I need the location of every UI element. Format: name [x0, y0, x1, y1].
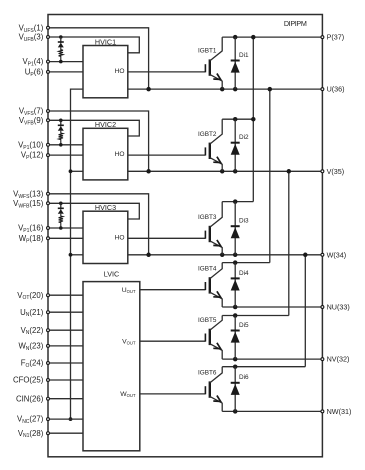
svg-text:HVIC1: HVIC1: [95, 37, 116, 46]
pin NV(32): [321, 355, 349, 364]
svg-text:IGBT2: IGBT2: [198, 131, 217, 138]
svg-text:Di3: Di3: [239, 218, 249, 225]
svg-text:VOT​(20): VOT​(20): [17, 291, 43, 301]
pin VP(12): [21, 151, 50, 161]
junction NV Di5: [233, 357, 238, 362]
svg-text:CIN(26): CIN(26): [16, 394, 44, 403]
junction U VUFS: [146, 87, 151, 92]
transistor IGBT1 emitter: [210, 74, 222, 89]
bootstrap diode BSD3 wire: [60, 203, 62, 209]
junction VNC COM chain: [69, 417, 73, 421]
svg-text:IGBT4: IGBT4: [198, 265, 217, 272]
svg-text:NU(33): NU(33): [327, 303, 350, 312]
transistor IGBT4 collector: [210, 263, 222, 279]
junction Di2 top: [233, 117, 238, 122]
diode Di3 cathode bar: [231, 225, 240, 227]
pin U(36): [321, 85, 345, 94]
pin VP1(4): [22, 57, 49, 67]
wire node W line: [128, 254, 323, 256]
wire WP(18) to HVIC3: [48, 237, 83, 239]
transistor IGBT1 body bar: [209, 59, 211, 75]
transistor IGBT6 emitter: [210, 396, 222, 411]
svg-text:WP​(18): WP​(18): [19, 234, 44, 244]
junction V1FB-bootstrap: [59, 35, 63, 39]
wire HVIC1 COM to VNC chain: [71, 89, 84, 419]
svg-text:LVIC: LVIC: [104, 270, 119, 279]
svg-text:HO: HO: [115, 151, 125, 158]
diode Di2 triangle: [231, 144, 240, 155]
pin UN(21): [20, 308, 49, 318]
wire node U line: [128, 88, 323, 90]
wire VWFS(13) to node W: [48, 194, 149, 255]
diode Di2 wire: [234, 119, 236, 171]
pin P(37): [321, 33, 344, 42]
wire VP(12) to HVIC2: [48, 154, 83, 156]
junction V Di2: [233, 169, 238, 174]
op-amp-driver HVIC3 box: [83, 211, 128, 263]
diode Di3 triangle: [231, 227, 240, 238]
svg-text:P(37): P(37): [327, 33, 345, 42]
transistor IGBT2 gate wire: [128, 154, 206, 156]
diode Di1 triangle: [231, 62, 240, 73]
op-amp-driver HVIC2 box: [83, 128, 128, 180]
wire VVFS(7) to node V: [48, 111, 149, 171]
bootstrap diode BSD3 triangle: [58, 209, 64, 214]
transistor IGBT5 gate wire: [140, 340, 206, 342]
transistor IGBT4 gate bar: [204, 282, 206, 290]
transistor IGBT3 emitter arrow: [213, 240, 220, 246]
svg-text:VOUT: VOUT: [122, 338, 136, 345]
transistor IGBT4 emitter arrow: [213, 291, 220, 297]
junction Di3 top: [233, 199, 238, 204]
wire FO(24) to LVIC: [48, 362, 83, 364]
svg-text:VNC​(27): VNC​(27): [17, 415, 44, 425]
junction V VVFS: [146, 169, 151, 174]
junction W drop: [303, 253, 308, 257]
diode Di2 cathode bar: [231, 142, 240, 144]
bootstrap diode BSD2 wire: [60, 120, 62, 126]
junction Di6 top: [233, 364, 238, 369]
transistor IGBT5 gate bar: [204, 334, 206, 342]
svg-text:IGBT6: IGBT6: [198, 370, 217, 377]
bootstrap diode BSD1 triangle: [58, 43, 64, 48]
wire VP1(16) to HVIC3: [48, 227, 83, 229]
diode Di6 cathode bar: [231, 382, 240, 384]
svg-text:WN​(23): WN​(23): [18, 342, 43, 352]
svg-text:IGBT1: IGBT1: [198, 48, 217, 55]
transistor IGBT6 emitter arrow: [213, 396, 220, 402]
wire node V line: [128, 170, 323, 172]
svg-text:HO: HO: [115, 68, 125, 75]
wire UN(21) to LVIC: [48, 311, 83, 313]
diode Di4 triangle: [231, 280, 240, 291]
wire P bus drop to IGBT2 IGBT3 collectors: [252, 37, 254, 202]
wire IGBT5 collector segment: [222, 315, 289, 317]
pin WP(18): [19, 234, 50, 244]
svg-text:FO​(24): FO​(24): [21, 359, 44, 369]
svg-text:W(34): W(34): [327, 250, 347, 259]
wire IGBT3 collector segment: [222, 201, 253, 203]
junction Di5 top: [233, 313, 238, 318]
pin VP1(16): [18, 224, 49, 234]
bootstrap diode BSD1 wire: [60, 37, 62, 43]
svg-text:HVIC3: HVIC3: [95, 203, 116, 212]
transistor IGBT2 gate bar: [204, 147, 206, 155]
svg-text:NW(31): NW(31): [327, 407, 352, 416]
pin VNC(27): [17, 415, 49, 425]
junction HVIC2 COM: [69, 169, 73, 173]
wire VN1(28) to LVIC: [48, 432, 83, 434]
junction V2FB-bootstrap: [59, 119, 63, 123]
transistor IGBT6 gate wire: [140, 393, 206, 395]
pin VP1(10): [18, 140, 49, 150]
svg-text:VP1​(10): VP1​(10): [18, 140, 44, 150]
diode Di4 cathode bar: [231, 277, 240, 279]
pin NU(33): [321, 303, 350, 312]
svg-text:Di5: Di5: [239, 322, 249, 329]
transistor IGBT1 emitter arrow: [213, 74, 220, 80]
transistor IGBT6 collector: [210, 367, 222, 383]
transistor IGBT5 emitter arrow: [213, 343, 220, 349]
pin WN(23): [18, 342, 49, 352]
transistor IGBT1 collector: [210, 37, 222, 61]
svg-text:WOUT: WOUT: [120, 391, 136, 398]
svg-text:Di6: Di6: [239, 374, 249, 381]
package outline DIPIPM module: [48, 15, 322, 457]
junction W VWFS: [146, 253, 151, 257]
svg-text:HO: HO: [115, 234, 125, 241]
junction V3FB-bootstrap: [59, 202, 63, 206]
junction W IGBT3 emitter: [220, 253, 225, 257]
wire VVFB(9) to HVIC2 VB: [48, 120, 139, 136]
pin V(35): [321, 167, 344, 176]
wire node NU line: [222, 306, 322, 308]
pin VVFS(7): [19, 107, 50, 117]
junction V2P1-bootstrap: [59, 143, 63, 147]
svg-text:VP1​(4): VP1​(4): [22, 57, 43, 67]
pin VN(22): [21, 326, 50, 336]
bootstrap diode BSD3 cathode bar: [58, 207, 64, 209]
junction V1P1-bootstrap: [59, 60, 63, 64]
diode Di4 wire: [234, 263, 236, 307]
junction W Di3: [233, 253, 238, 257]
wire V drop to IGBT5 collector: [288, 171, 290, 315]
pin VUFS(1): [19, 23, 50, 33]
transistor IGBT3 collector: [210, 202, 222, 228]
bootstrap resistor BSR1: [59, 47, 63, 61]
svg-text:Di2: Di2: [239, 134, 249, 141]
junction HVIC3 COM: [69, 253, 73, 257]
op-amp-driver LVIC box: [83, 282, 140, 451]
pin UP(6): [25, 68, 50, 78]
pin W(34): [321, 250, 346, 259]
bootstrap diode BSD1 cathode bar: [58, 41, 64, 43]
wire UP(6) to HVIC1: [48, 71, 83, 73]
transistor IGBT2 collector: [210, 119, 222, 144]
diode Di1 cathode bar: [231, 60, 240, 62]
wire W drop to IGBT6 collector: [304, 255, 306, 367]
svg-text:VP​(12): VP​(12): [21, 151, 44, 161]
junction Di4 top: [233, 260, 238, 265]
transistor IGBT4 emitter: [210, 292, 222, 307]
wire IGBT4 collector segment: [222, 262, 270, 264]
pin VWFS(13): [13, 189, 49, 199]
junction V drop: [287, 169, 292, 174]
bootstrap diode BSD2 cathode bar: [58, 124, 64, 126]
junction P line Di1: [233, 35, 238, 40]
op-amp-driver HVIC1 box: [83, 46, 128, 98]
svg-text:NV(32): NV(32): [327, 355, 350, 364]
wire node NW line: [222, 410, 322, 412]
transistor IGBT6 body bar: [209, 381, 211, 397]
svg-text:UOUT: UOUT: [122, 287, 136, 294]
wire node NV line: [222, 358, 322, 360]
pin VOT(20): [17, 291, 49, 301]
svg-text:DIPIPM: DIPIPM: [284, 19, 307, 28]
transistor IGBT3 body bar: [209, 226, 211, 242]
transistor IGBT1 gate bar: [204, 64, 206, 72]
wire VUFS(1) to node U: [48, 28, 149, 89]
junction P line drop: [251, 35, 256, 40]
diode Di5 triangle: [231, 332, 240, 343]
svg-text:UP​(6): UP​(6): [25, 68, 44, 78]
diode Di3 wire: [234, 202, 236, 255]
wire CIN(26) to LVIC: [48, 398, 83, 400]
wire VP1(4) to HVIC1: [48, 61, 83, 63]
wire VN(22) to LVIC: [48, 329, 83, 331]
transistor IGBT4 gate wire: [140, 289, 206, 291]
transistor IGBT3 gate wire: [128, 237, 206, 239]
junction NW Di6: [233, 409, 238, 414]
transistor IGBT6 gate bar: [204, 386, 206, 394]
pin NW(31): [321, 407, 351, 416]
junction U IGBT1 emitter: [220, 87, 225, 92]
svg-text:Di4: Di4: [239, 270, 249, 277]
transistor IGBT2 emitter arrow: [213, 157, 220, 163]
wire HVIC3 COM stub: [71, 254, 84, 256]
svg-text:U(36): U(36): [327, 85, 345, 94]
diode Di5 wire: [234, 316, 236, 360]
svg-text:V(35): V(35): [327, 167, 345, 176]
transistor IGBT4 body bar: [209, 277, 211, 293]
transistor IGBT2 body bar: [209, 143, 211, 159]
transistor IGBT5 body bar: [209, 329, 211, 345]
bootstrap resistor BSR2: [59, 131, 63, 145]
wire VP1(10) to HVIC2: [48, 144, 83, 146]
transistor IGBT1 gate wire: [128, 71, 206, 73]
diode Di1 wire: [234, 37, 236, 89]
bootstrap diode BSD2 triangle: [58, 126, 64, 131]
diode Di5 cathode bar: [231, 330, 240, 332]
wire HVIC2 COM stub: [71, 170, 84, 172]
pin VWFB(15): [13, 199, 49, 209]
wire VNC(27) to LVIC: [48, 418, 83, 420]
svg-text:IGBT3: IGBT3: [198, 214, 217, 221]
diode Di6 wire: [234, 367, 236, 412]
wire VWFB(15) to HVIC3 VB: [48, 203, 139, 219]
pin FO(24): [21, 359, 50, 369]
svg-text:CFO(25): CFO(25): [13, 376, 44, 385]
wire VUFB(3) to HVIC1 VB: [48, 37, 139, 53]
svg-text:Di1: Di1: [239, 52, 249, 59]
bootstrap resistor BSR3: [59, 214, 63, 228]
pin VVFB(9): [19, 116, 50, 126]
svg-text:HVIC2: HVIC2: [95, 120, 116, 129]
transistor IGBT2 emitter: [210, 158, 222, 172]
svg-text:VN​(22): VN​(22): [21, 326, 44, 336]
junction U Di1: [233, 87, 238, 92]
pin VUFB(3): [19, 33, 50, 43]
transistor IGBT5 emitter: [210, 344, 222, 359]
junction U drop: [268, 87, 273, 92]
wire CFO(25) to LVIC: [48, 379, 83, 381]
junction V3P1-bootstrap: [59, 226, 63, 230]
transistor IGBT5 collector: [210, 316, 222, 331]
transistor IGBT3 emitter: [210, 241, 222, 255]
svg-text:UN​(21): UN​(21): [20, 308, 44, 318]
junction IGBT2 collector P bus: [251, 117, 256, 122]
svg-text:VN1​(28): VN1​(28): [18, 429, 44, 439]
pin VN1(28): [18, 429, 50, 439]
wire IGBT6 collector segment: [222, 366, 305, 368]
wire VOT(20) to LVIC: [48, 294, 83, 296]
wire node P bus: [222, 36, 322, 38]
pin CFO(25): [13, 376, 49, 385]
svg-text:IGBT5: IGBT5: [198, 317, 217, 324]
junction NU Di4: [233, 305, 238, 310]
wire IGBT2 collector segment: [222, 118, 253, 120]
junction V IGBT2 emitter: [220, 169, 225, 174]
svg-text:VP1​(16): VP1​(16): [18, 224, 44, 234]
pin CIN(26): [16, 394, 49, 403]
wire U drop to IGBT4 collector: [269, 89, 271, 263]
diode Di6 triangle: [231, 384, 240, 395]
wire WN(23) to LVIC: [48, 345, 83, 347]
transistor IGBT3 gate bar: [204, 231, 206, 239]
